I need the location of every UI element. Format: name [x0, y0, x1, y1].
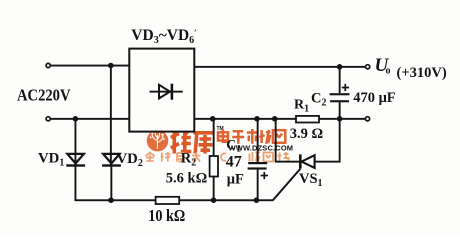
wire: mid line (0V) left part: [194, 118, 296, 120]
bridge rectifier box VD3~VD6: [129, 49, 194, 132]
网: [273, 130, 285, 143]
wire: VD2 riser upper: [110, 66, 112, 166]
node: VD2 on rail: [108, 197, 114, 203]
node: C1 on rail: [254, 197, 260, 203]
svg-text:VD3~VD6′: VD3~VD6′: [131, 27, 196, 46]
terminal: AC top: [46, 63, 50, 67]
watermark 全球最大 I C: [146, 152, 227, 162]
node: junction top (C2 tap): [337, 64, 343, 70]
svg-text:5.6 kΩ: 5.6 kΩ: [166, 171, 207, 187]
node: junction VS1 tap: [272, 116, 278, 122]
微: [250, 152, 261, 162]
capacitor C1: [248, 119, 268, 200]
node: R2 on rail: [211, 197, 217, 203]
thyristor VS1: [275, 119, 341, 169]
子: [232, 131, 244, 144]
node: junction R2 tap: [210, 116, 216, 122]
svg-text:VD2: VD2: [117, 151, 143, 169]
svg-text:AC220V: AC220V: [17, 86, 71, 105]
node: junction C2 bottom: [337, 116, 343, 122]
svg-text:3.9 Ω: 3.9 Ω: [290, 126, 323, 142]
svg-text:47: 47: [226, 154, 242, 171]
wire: output top line: [194, 66, 366, 68]
watermark logo circle: [147, 130, 169, 152]
wire: mid line right part: [319, 118, 366, 120]
resistor 10k: [156, 197, 180, 204]
场: [259, 130, 270, 144]
watermark char 维: [171, 130, 191, 154]
最: [177, 153, 185, 162]
wire: bottom AC line: [50, 118, 130, 120]
svg-text:VS1: VS1: [299, 171, 323, 189]
wire: top AC line: [50, 65, 130, 67]
resistor R1: [296, 116, 319, 123]
resistor R2: [210, 119, 218, 200]
svg-text:470 μF: 470 μF: [353, 90, 396, 106]
terminal: output return: [365, 117, 369, 121]
capacitor C2: [330, 67, 350, 119]
wire: VS1 gate diagonal: [273, 169, 301, 201]
bridge inner diode: [150, 84, 183, 100]
全: [146, 153, 155, 162]
svg-text:μF: μF: [227, 171, 244, 187]
terminal: AC bottom: [46, 117, 50, 121]
svg-text:R1: R1: [294, 97, 309, 114]
svg-text:VD1: VD1: [38, 151, 64, 169]
球: [161, 152, 171, 162]
diode VD1: [66, 154, 85, 200]
diode VD2: [102, 154, 121, 200]
terminal: Uo output: [366, 65, 370, 69]
svg-text:(+310V): (+310V): [397, 65, 447, 81]
node: junction on bottom AC line: [73, 116, 79, 122]
C: [221, 153, 226, 160]
wire: VD1 riser upper: [75, 119, 77, 165]
大: [192, 153, 201, 162]
站: [278, 152, 289, 162]
svg-text:10 kΩ: 10 kΩ: [148, 206, 185, 225]
市: [247, 129, 258, 144]
网: [264, 153, 274, 162]
svg-text:o: o: [386, 66, 391, 77]
电: [218, 132, 228, 140]
node: junction C1 tap: [254, 116, 260, 122]
watermark chars 电子市场网: [218, 129, 285, 144]
watermark 微网站: [250, 152, 289, 162]
watermark char 库: [193, 133, 213, 154]
wire: bottom rail: [75, 199, 274, 201]
svg-text:C2: C2: [311, 90, 326, 108]
node: junction on top AC line: [108, 63, 114, 69]
